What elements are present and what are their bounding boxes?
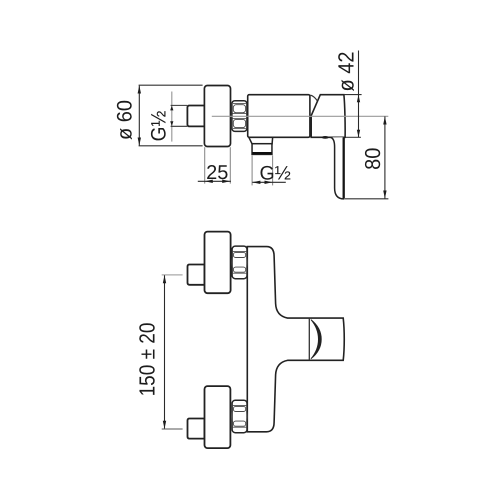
dimension 150±20 arrows bbox=[163, 275, 166, 429]
outlet thread heavy band bbox=[252, 152, 271, 154]
svg-text:25: 25 bbox=[206, 162, 228, 184]
shower outlet collar (side view) bbox=[249, 137, 273, 143]
dimension ø60 extension lines bbox=[139, 84, 203, 86]
svg-text:ø 42: ø 42 bbox=[335, 51, 359, 91]
dimension 150±20 line bbox=[164, 275, 166, 428]
handle cap (side view) bbox=[311, 95, 345, 138]
lever fillet curve (side view) bbox=[310, 95, 317, 101]
hex nut (side view) bbox=[232, 101, 247, 132]
handle lever crescent (front view) bbox=[311, 320, 321, 359]
dimension ø60 line bbox=[138, 86, 140, 146]
upper wall nipple (front view) bbox=[188, 265, 205, 285]
shower outlet thread G1/2 (side view) bbox=[252, 144, 272, 155]
dimension ø42 arrows bbox=[357, 95, 360, 138]
dimension G1/2 (outlet) line bbox=[252, 181, 285, 183]
lower wall nipple (front view) bbox=[188, 419, 205, 439]
dimension 25 arrows bbox=[205, 180, 230, 183]
centerline (top view pipe axis) bbox=[212, 115, 388, 117]
dimension 80 extension line bbox=[345, 198, 389, 200]
handle lever (side view) bbox=[331, 137, 344, 199]
upper hex nut (front view) bbox=[232, 246, 247, 279]
upper wall flange (front view) bbox=[205, 232, 231, 294]
wall flange ø60 (side view) bbox=[204, 86, 230, 147]
svg-text:80: 80 bbox=[362, 148, 386, 170]
dimension 25 extension lines bbox=[204, 147, 206, 183]
dimension ø60 arrows bbox=[138, 86, 141, 146]
lever right heavy edge bbox=[343, 137, 345, 198]
dimension 150±20 extension line top bbox=[162, 274, 183, 276]
dimension G1/2 (outlet) arrows bbox=[252, 181, 272, 184]
svg-text:G½: G½ bbox=[259, 163, 290, 185]
dimension 80 arrows bbox=[383, 116, 386, 198]
lever tip blob (side view) bbox=[322, 136, 329, 139]
dimension 25 line bbox=[198, 180, 231, 182]
lower wall flange (front view) bbox=[205, 386, 231, 448]
dimension G1/2 connector lines bbox=[171, 104, 188, 106]
dimension G1/2 (inlet) gray line bbox=[171, 92, 173, 142]
handle escutcheon divider (front view) bbox=[308, 318, 310, 360]
svg-text:G½: G½ bbox=[148, 111, 171, 142]
dimension G1/2 (outlet) extension lines bbox=[251, 155, 253, 185]
dimension 80 line bbox=[384, 116, 386, 198]
svg-text:150 ± 20: 150 ± 20 bbox=[136, 323, 160, 397]
mixer body (front view) bbox=[247, 247, 344, 432]
dimension G1/2 arrows bbox=[170, 106, 173, 127]
dimension 150±20 extension line bottom bbox=[162, 428, 183, 430]
svg-text:ø 60: ø 60 bbox=[114, 100, 137, 140]
mixer body (side view) bbox=[248, 95, 310, 138]
dimension ø42 extension lines bbox=[344, 94, 362, 96]
wall nipple G1/2 (side view) bbox=[187, 106, 204, 127]
dimension ø42 line bbox=[358, 51, 360, 138]
lower hex nut (front view) bbox=[232, 400, 247, 433]
